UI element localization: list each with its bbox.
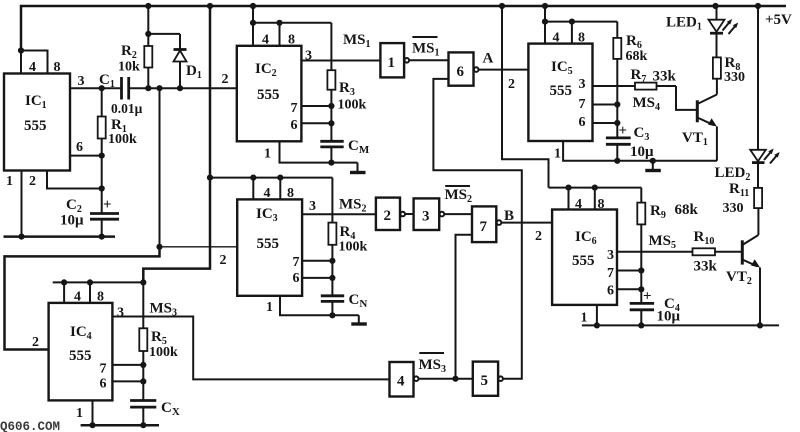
wire IC6 ground bus (582, 322, 779, 328)
pin 1 label IC2 (264, 147, 271, 162)
pin 1 label IC5 (554, 147, 561, 162)
svg-text:330: 330 (723, 201, 744, 216)
resistor R1 (98, 88, 106, 155)
LED2 light arrows (764, 149, 780, 164)
svg-text:555: 555 (69, 348, 92, 364)
pin 3 label IC6 (607, 248, 614, 263)
label LED1 (666, 15, 702, 33)
svg-text:555: 555 (550, 83, 573, 99)
transistor VT1 NPN (697, 79, 717, 161)
resistor R3 (327, 23, 335, 142)
wire IC4 pin3 MS3 output to gate4 (112, 317, 389, 380)
LED1 diode (709, 6, 725, 57)
pin 6 label IC4 (100, 377, 107, 392)
resistor R10 horizontal (693, 248, 742, 255)
wire R7 to VT1 base (676, 86, 696, 110)
svg-text:8: 8 (54, 60, 61, 75)
pin 1 label IC6 (581, 311, 588, 326)
wire IC1 pin6 (70, 153, 105, 214)
svg-text:3: 3 (579, 77, 586, 92)
label LED2 (715, 165, 751, 183)
svg-text:0.01μ: 0.01μ (111, 101, 143, 116)
svg-text:+: + (103, 197, 112, 213)
pin 7 label IC6 (607, 266, 614, 281)
transistor VT2 NPN (742, 208, 760, 325)
label CN (349, 292, 368, 310)
logic gate 1 inverter (380, 43, 409, 77)
svg-text:10μ: 10μ (60, 213, 84, 229)
svg-text:100k: 100k (339, 240, 368, 255)
svg-text:6: 6 (607, 284, 614, 299)
svg-text:4: 4 (553, 31, 560, 46)
svg-text:4: 4 (74, 290, 81, 305)
svg-text:A: A (483, 51, 494, 67)
svg-text:330: 330 (724, 70, 745, 85)
label R2 10k (118, 43, 140, 75)
pin 6 label IC2 (291, 118, 298, 133)
svg-text:1: 1 (581, 311, 588, 326)
svg-text:6: 6 (579, 115, 586, 130)
wire IC3 VCC bracket pins 4,8 (210, 175, 332, 200)
net MS3 label (150, 301, 178, 319)
wire IC4 ground bus (81, 422, 159, 428)
logic gate 6 (449, 52, 479, 85)
pin 2 label IC4 (32, 335, 39, 350)
pin 3 label IC5 (579, 77, 586, 92)
svg-text:2: 2 (535, 229, 542, 244)
svg-text:8: 8 (288, 33, 295, 48)
LED2 diode (750, 6, 766, 188)
svg-text:8: 8 (598, 197, 605, 212)
svg-text:1: 1 (264, 147, 271, 162)
svg-text:555: 555 (572, 253, 595, 269)
label R11 330 (723, 181, 750, 216)
resistor R8 (713, 57, 721, 78)
wire IC6 pin1 (596, 305, 598, 326)
svg-text:6: 6 (293, 271, 300, 286)
svg-text:100k: 100k (108, 132, 137, 147)
label C4 10u (657, 296, 681, 325)
resistor R7 horizontal (635, 83, 676, 90)
svg-text:LED2: LED2 (715, 165, 751, 183)
node junction dots on top rail (145, 3, 761, 9)
wire IC2 VCC bracket pins 4,8 (250, 6, 332, 46)
wire trigger line C1 to IC2 pin2 (129, 85, 237, 91)
pin 7 label IC5 (579, 97, 586, 112)
wire IC5 pin6 (593, 120, 621, 126)
wire IC2 pin6 (301, 120, 334, 126)
resistor R11 (754, 188, 762, 208)
wire IC3 pin3 MS2 output (302, 213, 376, 215)
net +5V label (765, 12, 792, 28)
svg-text:555: 555 (257, 236, 280, 252)
logic gate 5 inverter (473, 362, 503, 396)
wire IC3 pin7 (302, 258, 335, 264)
pin 8 label IC2 (288, 33, 295, 48)
capacitor C4 10u electrolytic (630, 289, 654, 326)
net MS3-bar label (419, 353, 447, 375)
svg-text:+: + (619, 123, 628, 139)
pin 3 label IC2 (305, 49, 312, 64)
node B label (504, 208, 514, 224)
svg-text:7: 7 (293, 255, 300, 270)
label R1 100k (108, 117, 137, 147)
svg-text:7: 7 (100, 362, 107, 377)
svg-text:68k: 68k (626, 49, 648, 64)
svg-text:33k: 33k (653, 69, 677, 85)
pin 4 label IC6 (575, 197, 582, 212)
pin 7 label IC4 (100, 362, 107, 377)
wire IC6 VCC bracket pins 4,8 (549, 185, 642, 210)
label R4 100k (339, 224, 368, 255)
resistor R5 (139, 282, 147, 400)
wire gate2 to gate3 (405, 213, 413, 215)
pin 8 label IC1 (54, 60, 61, 75)
op-amp IC2 555 timer box (237, 46, 302, 142)
ground symbol IC5 (645, 161, 661, 171)
svg-text:100k: 100k (338, 98, 367, 113)
pin 8 label IC3 (287, 186, 294, 201)
svg-text:6: 6 (291, 118, 298, 133)
svg-text:2: 2 (32, 335, 39, 350)
svg-text:1: 1 (76, 406, 83, 421)
op-amp IC5 555 timer box (528, 44, 592, 141)
svg-text:100k: 100k (149, 345, 178, 360)
svg-text:2: 2 (29, 174, 36, 189)
wire IC3 pin1 to ground (280, 296, 359, 319)
wire gate4 output to gate5 (419, 376, 473, 382)
pin 4 label IC1 (29, 60, 36, 75)
label VT2 (726, 269, 752, 287)
net MS2 label (339, 197, 367, 215)
pin 1 label IC3 (266, 300, 273, 315)
svg-text:5: 5 (481, 373, 489, 389)
pin 8 label IC6 (598, 197, 605, 212)
diode D1 (174, 34, 187, 88)
net MS4 label (633, 95, 661, 113)
wire VCC rail drop x210 to IC3/IC4 (143, 6, 213, 282)
svg-text:1: 1 (388, 55, 396, 71)
wire gate5 output feedback to gate6 input (433, 79, 521, 379)
label R8 330 (724, 55, 745, 85)
wire IC6 pin7 (617, 267, 644, 273)
pin 4 label IC2 (262, 33, 269, 48)
op-amp IC1 555 timer box (4, 74, 70, 171)
wire trigger vertical to IC3 and IC4 pin2 (5, 88, 238, 349)
pin 8 label IC4 (97, 290, 104, 305)
label C1 (99, 72, 115, 90)
logic gate 3 inverter (414, 198, 445, 230)
pin 3 label IC4 (117, 306, 124, 321)
resistor R9 (637, 188, 645, 304)
wire IC5 pin1 ground bus (563, 141, 717, 164)
svg-text:+: + (643, 289, 652, 305)
svg-text:3: 3 (422, 209, 430, 225)
wire IC6 pin6 (617, 286, 644, 292)
svg-text:6: 6 (100, 377, 107, 392)
svg-text:10k: 10k (118, 60, 140, 75)
wire IC1 ground bus (4, 234, 116, 240)
resistor R6 (613, 22, 621, 138)
logic gate 2 inverter (376, 198, 405, 230)
net MS1-bar label (412, 37, 440, 59)
svg-text:+5V: +5V (765, 12, 792, 28)
wire gate1 output to gate6 (410, 59, 449, 61)
pin 4 label IC5 (553, 31, 560, 46)
pin 1 label IC1 (6, 174, 13, 189)
svg-text:1: 1 (6, 174, 13, 189)
capacitor CX (130, 401, 156, 426)
wire IC1 pin2 to pin6 node (47, 171, 102, 189)
wire IC4 VCC bracket pins 4,8 (53, 279, 147, 303)
wire IC2 pin3 MS1 output (301, 60, 380, 62)
wire IC2 pin1 to ground (280, 141, 358, 165)
wire +5V top rail (21, 6, 786, 51)
LED1 light arrows (723, 19, 739, 34)
pin 6 label IC3 (293, 271, 300, 286)
wire IC1 pins 4,8 VCC bracket (18, 47, 48, 73)
wire IC6 VCC feed from rail (502, 6, 549, 188)
svg-text:3: 3 (117, 306, 124, 321)
capacitor C1 coupling (122, 77, 129, 100)
label R3 100k (338, 80, 367, 113)
svg-text:7: 7 (607, 266, 614, 281)
pin 4 label IC4 (74, 290, 81, 305)
svg-text:68k: 68k (675, 202, 699, 218)
label D1 (186, 63, 202, 81)
net MS1 label (343, 32, 371, 50)
pin 2 label IC2 (222, 72, 229, 87)
resistor R2 (144, 46, 152, 88)
svg-text:4: 4 (29, 60, 36, 75)
net MS2-bar label (445, 186, 473, 205)
label R7 33k (631, 67, 677, 85)
wire IC1 pin3 output to C1 (70, 85, 122, 91)
svg-text:8: 8 (97, 290, 104, 305)
svg-text:4: 4 (264, 186, 271, 201)
label C2 10u (60, 197, 84, 229)
pin 7 label IC3 (293, 255, 300, 270)
capacitor CN (321, 296, 344, 316)
node A label (483, 51, 494, 67)
capacitor CM (320, 141, 343, 162)
svg-text:4: 4 (397, 374, 405, 390)
watermark Q606.COM (0, 420, 60, 432)
ground symbol IC3 (351, 315, 367, 324)
pin 2 label IC1 (29, 174, 36, 189)
svg-text:3: 3 (78, 74, 85, 89)
pin 6 label IC6 (607, 284, 614, 299)
pin 3 label IC1 (78, 74, 85, 89)
svg-text:10μ: 10μ (657, 309, 681, 325)
svg-text:4: 4 (262, 33, 269, 48)
wire IC6 pin3 MS5 to R10 (617, 251, 693, 253)
op-amp IC6 555 timer box (552, 210, 617, 305)
logic gate 4 inverter (390, 362, 419, 397)
wire IC4 pin6 (112, 378, 146, 384)
pin 2 label IC6 (535, 229, 542, 244)
svg-text:6: 6 (457, 64, 465, 80)
svg-text:3: 3 (607, 248, 614, 263)
label R10 33k (694, 229, 718, 275)
svg-text:555: 555 (257, 87, 280, 103)
svg-text:8: 8 (287, 186, 294, 201)
svg-text:2: 2 (222, 72, 229, 87)
svg-text:555: 555 (24, 118, 47, 134)
wire gate3 output to gate7 (445, 213, 472, 215)
svg-text:33k: 33k (694, 259, 718, 275)
logic gate 7 (472, 206, 501, 242)
wire IC4 pin1 to ground bus (92, 400, 94, 425)
svg-text:2: 2 (220, 253, 227, 268)
label R9 68k (650, 202, 699, 221)
label C3 10u (630, 125, 654, 160)
pin 7 label IC2 (291, 101, 298, 116)
wire R2 top feed from rail (145, 6, 180, 46)
pin 2 label IC3 (220, 253, 227, 268)
svg-text:2: 2 (508, 77, 515, 92)
svg-text:B: B (504, 208, 514, 224)
svg-text:4: 4 (575, 197, 582, 212)
wire IC2 pin7 (301, 103, 334, 109)
svg-text:Q606.COM: Q606.COM (0, 420, 60, 432)
pin 6 label IC1 (76, 140, 83, 155)
label CX (161, 400, 180, 418)
wire gate6 output node A to IC5 pin2 (479, 69, 529, 71)
capacitor C2 10u electrolytic (90, 197, 119, 237)
net MS5 label (649, 233, 677, 251)
resistor R4 (328, 178, 336, 296)
pin 3 label IC3 (309, 199, 316, 214)
capacitor C3 10u electrolytic (606, 123, 631, 161)
label R5 100k (149, 329, 178, 360)
wire gate7 output node B to IC6 pin2 (502, 222, 552, 224)
op-amp IC3 555 timer box (237, 199, 302, 295)
wire IC3 pin6 (302, 275, 335, 281)
svg-text:8: 8 (578, 31, 585, 46)
svg-text:LED1: LED1 (666, 15, 702, 33)
svg-text:3: 3 (309, 199, 316, 214)
wire IC4 pin7 (112, 362, 146, 368)
pin 6 label IC5 (579, 115, 586, 130)
label VT1 (682, 130, 708, 148)
wire IC5 pin7 (593, 101, 621, 107)
pin 2 label IC5 (508, 77, 515, 92)
pin 8 label IC5 (578, 31, 585, 46)
svg-text:7: 7 (579, 97, 586, 112)
label R6 68k (626, 33, 648, 64)
svg-text:2: 2 (384, 208, 392, 224)
svg-text:6: 6 (76, 140, 83, 155)
op-amp IC4 555 timer box (49, 303, 113, 401)
pin 1 label IC4 (76, 406, 83, 421)
svg-text:10μ: 10μ (630, 144, 654, 160)
wire MS3-bar up to gate7 input (456, 235, 473, 379)
pin 4 label IC3 (264, 186, 271, 201)
svg-text:1: 1 (554, 147, 561, 162)
value 0.01u label C1 (111, 101, 143, 116)
label CM (348, 138, 370, 156)
svg-text:7: 7 (291, 101, 298, 116)
wire IC5 VCC bracket pins 4,8 (542, 6, 617, 44)
wire IC1 pin1 to ground bus (21, 171, 23, 237)
svg-text:1: 1 (266, 300, 273, 315)
svg-text:7: 7 (480, 219, 488, 235)
wire IC5 pin3 MS4 to R7 (593, 85, 636, 87)
ground symbol IC2 (350, 163, 366, 173)
